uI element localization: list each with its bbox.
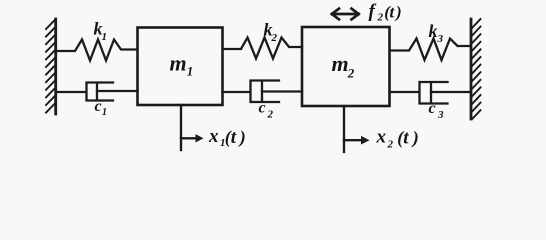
right wall — [471, 19, 481, 119]
svg-text:2: 2 — [387, 139, 394, 151]
svg-text:t: t — [231, 127, 237, 148]
spring k3 — [390, 39, 470, 61]
svg-text:x: x — [376, 127, 387, 148]
spring k2 — [223, 38, 302, 59]
left wall — [46, 19, 56, 114]
spring k1 — [57, 40, 137, 61]
svg-text:m: m — [170, 51, 187, 76]
svg-text:f: f — [369, 1, 377, 22]
label f2(t) — [369, 1, 402, 24]
label x2(t) — [376, 127, 419, 151]
svg-text:c: c — [95, 98, 102, 115]
svg-text:c: c — [259, 100, 266, 117]
svg-text:): ) — [411, 128, 419, 149]
label x1(t) — [208, 126, 246, 149]
svg-text:t: t — [390, 3, 396, 22]
label m2 — [332, 51, 355, 81]
svg-text:m: m — [332, 51, 349, 76]
label k2 — [264, 20, 278, 45]
damper c1 — [57, 83, 138, 101]
force double arrow f2 — [332, 9, 359, 20]
displacement pointer x1 — [181, 105, 204, 150]
svg-text:2: 2 — [377, 12, 384, 24]
displacement pointer x2 — [344, 106, 370, 152]
svg-text:): ) — [238, 127, 246, 148]
svg-text:1: 1 — [102, 107, 107, 118]
label c2 — [259, 100, 274, 121]
mass m2 box — [302, 27, 390, 106]
mass m1 box — [138, 28, 223, 106]
label k3 — [429, 21, 444, 45]
label c1 — [95, 98, 108, 118]
label k1 — [94, 19, 108, 44]
svg-text:k: k — [429, 21, 438, 41]
svg-text:2: 2 — [267, 109, 274, 121]
svg-text:): ) — [394, 3, 402, 22]
svg-text:3: 3 — [437, 109, 444, 121]
svg-text:1: 1 — [102, 31, 108, 43]
svg-text:2: 2 — [347, 66, 355, 81]
label m1 — [170, 51, 194, 79]
damper c3 — [390, 82, 471, 104]
label c3 — [429, 100, 445, 121]
svg-text:1: 1 — [187, 64, 194, 79]
svg-text:3: 3 — [437, 33, 444, 45]
svg-text:x: x — [208, 126, 219, 147]
svg-text:2: 2 — [271, 32, 278, 44]
damper c2 — [223, 81, 303, 103]
svg-text:c: c — [429, 100, 436, 117]
svg-text:t: t — [403, 128, 409, 149]
